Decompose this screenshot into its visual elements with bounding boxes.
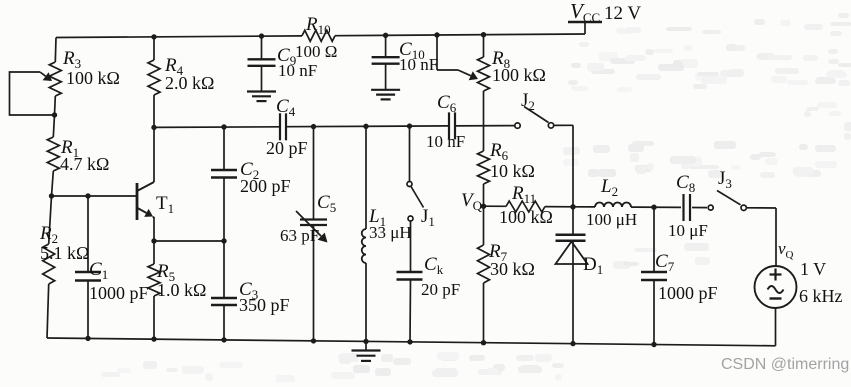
svg-text:30 kΩ: 30 kΩ [490,259,535,279]
svg-text:10 nF: 10 nF [278,61,317,80]
svg-text:2.0 kΩ: 2.0 kΩ [165,73,214,93]
svg-text:10 nF: 10 nF [426,132,465,151]
svg-text:63 pF: 63 pF [280,226,319,245]
svg-text:200 pF: 200 pF [240,176,291,196]
svg-text:10 kΩ: 10 kΩ [490,161,535,181]
svg-text:100 μH: 100 μH [586,210,637,229]
svg-text:12 V: 12 V [604,3,641,24]
svg-text:10 μF: 10 μF [668,221,708,240]
svg-text:1.0 kΩ: 1.0 kΩ [157,280,206,300]
svg-text:1 V: 1 V [800,259,826,279]
svg-text:10 nF: 10 nF [399,55,438,74]
svg-text:100 kΩ: 100 kΩ [499,207,553,227]
svg-text:CSDN @timerring: CSDN @timerring [721,356,849,373]
svg-text:100 Ω: 100 Ω [295,42,337,61]
svg-text:1000 pF: 1000 pF [89,283,149,303]
svg-text:20 pF: 20 pF [266,138,308,158]
svg-text:4.7 kΩ: 4.7 kΩ [60,154,109,174]
svg-text:100 kΩ: 100 kΩ [492,65,546,85]
svg-text:350 pF: 350 pF [239,295,290,315]
svg-text:20 pF: 20 pF [421,280,460,299]
svg-text:100 kΩ: 100 kΩ [66,68,120,88]
svg-text:33 μH: 33 μH [369,223,412,242]
svg-text:5.1 kΩ: 5.1 kΩ [40,243,89,263]
svg-text:6 kHz: 6 kHz [799,286,843,306]
svg-text:1000 pF: 1000 pF [658,283,718,303]
